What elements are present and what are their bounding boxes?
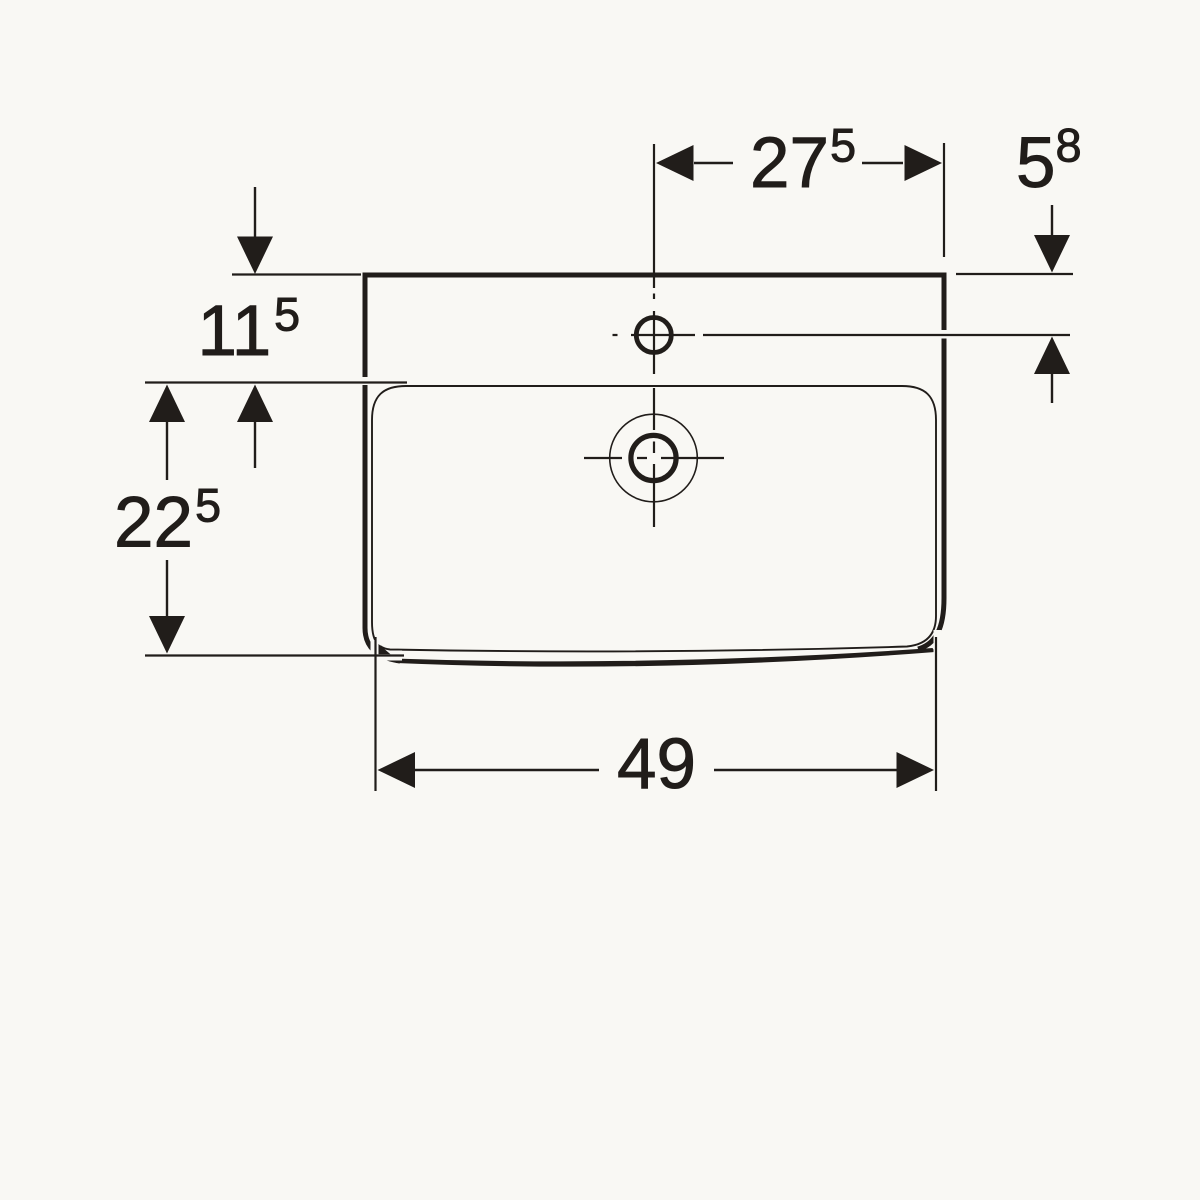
svg-text:49: 49 (617, 725, 696, 804)
svg-text:5: 5 (274, 288, 300, 341)
extension line: faucet centre right (5.8) (703, 334, 1070, 336)
centerline: drain horizontal axis (584, 457, 724, 459)
dim 22.5 upper stem (166, 422, 168, 480)
white halo: 49 left extension crossing (371, 640, 381, 672)
extension line: inner bowl rear level (11.5/22.5) (145, 381, 407, 383)
white halo: 49 right extension crossing (934, 630, 942, 676)
dim 11.5 upper stem (254, 187, 256, 237)
arrow up (22.5 to bowl rear) (149, 385, 185, 423)
basin outer outline (top, left, right edges) (365, 275, 944, 661)
basin inner bowl outline (372, 386, 936, 651)
arrow right (27.5) (905, 145, 943, 181)
dim 5.8 lower stem (1051, 374, 1053, 403)
dim 49: line segments (415, 769, 897, 771)
centerline: faucet vertical axis (653, 144, 655, 527)
white halo: left edge cut at 11.5 dim line (358, 377, 372, 385)
centerline: faucet horizontal axis (613, 334, 696, 336)
extension line: 49 left (374, 637, 376, 791)
arrow down (5.8 to top edge) (1034, 235, 1070, 273)
dim 22.5 lower stem (166, 560, 168, 616)
arrow left (49) (378, 752, 416, 788)
svg-text:8: 8 (1056, 119, 1082, 172)
extension line: top edge left (232, 273, 361, 275)
white halo: right edge cut at 5.8 dim line (937, 330, 950, 339)
svg-text:11: 11 (198, 292, 272, 371)
faucet hole (636, 318, 671, 353)
drain inner circle (631, 435, 676, 480)
arrow down (11.5 to top edge) (237, 237, 273, 275)
arrow up (5.8 to faucet axis) (1034, 337, 1070, 375)
dim 5.8 upper stem (1051, 205, 1053, 236)
svg-text:27: 27 (750, 124, 829, 203)
dim 11.5 lower stem (254, 422, 256, 468)
drain outer circle (610, 414, 698, 502)
basin front lip (tapered thick bottom edge) (393, 648, 935, 667)
arrow up (11.5 to bowl rear) (237, 385, 273, 423)
white halo: 22.5 bottom line crossing (366, 651, 402, 661)
svg-text:22: 22 (114, 484, 193, 563)
dim 27.5: line and arrows (694, 162, 903, 164)
outer corner remnant wedge (379, 644, 391, 654)
extension line: 49 right (935, 637, 937, 791)
svg-text:5: 5 (195, 479, 221, 532)
arrow left (27.5) (656, 145, 694, 181)
svg-text:5: 5 (830, 119, 856, 172)
arrow right (49) (897, 752, 935, 788)
extension line: bowl front level (22.5 bottom) (145, 654, 404, 656)
arrow down (22.5 to bowl front) (149, 616, 185, 654)
svg-text:5: 5 (1016, 124, 1056, 203)
extension line: top edge right (956, 273, 1073, 275)
extension line: 27.5 right (943, 143, 945, 257)
